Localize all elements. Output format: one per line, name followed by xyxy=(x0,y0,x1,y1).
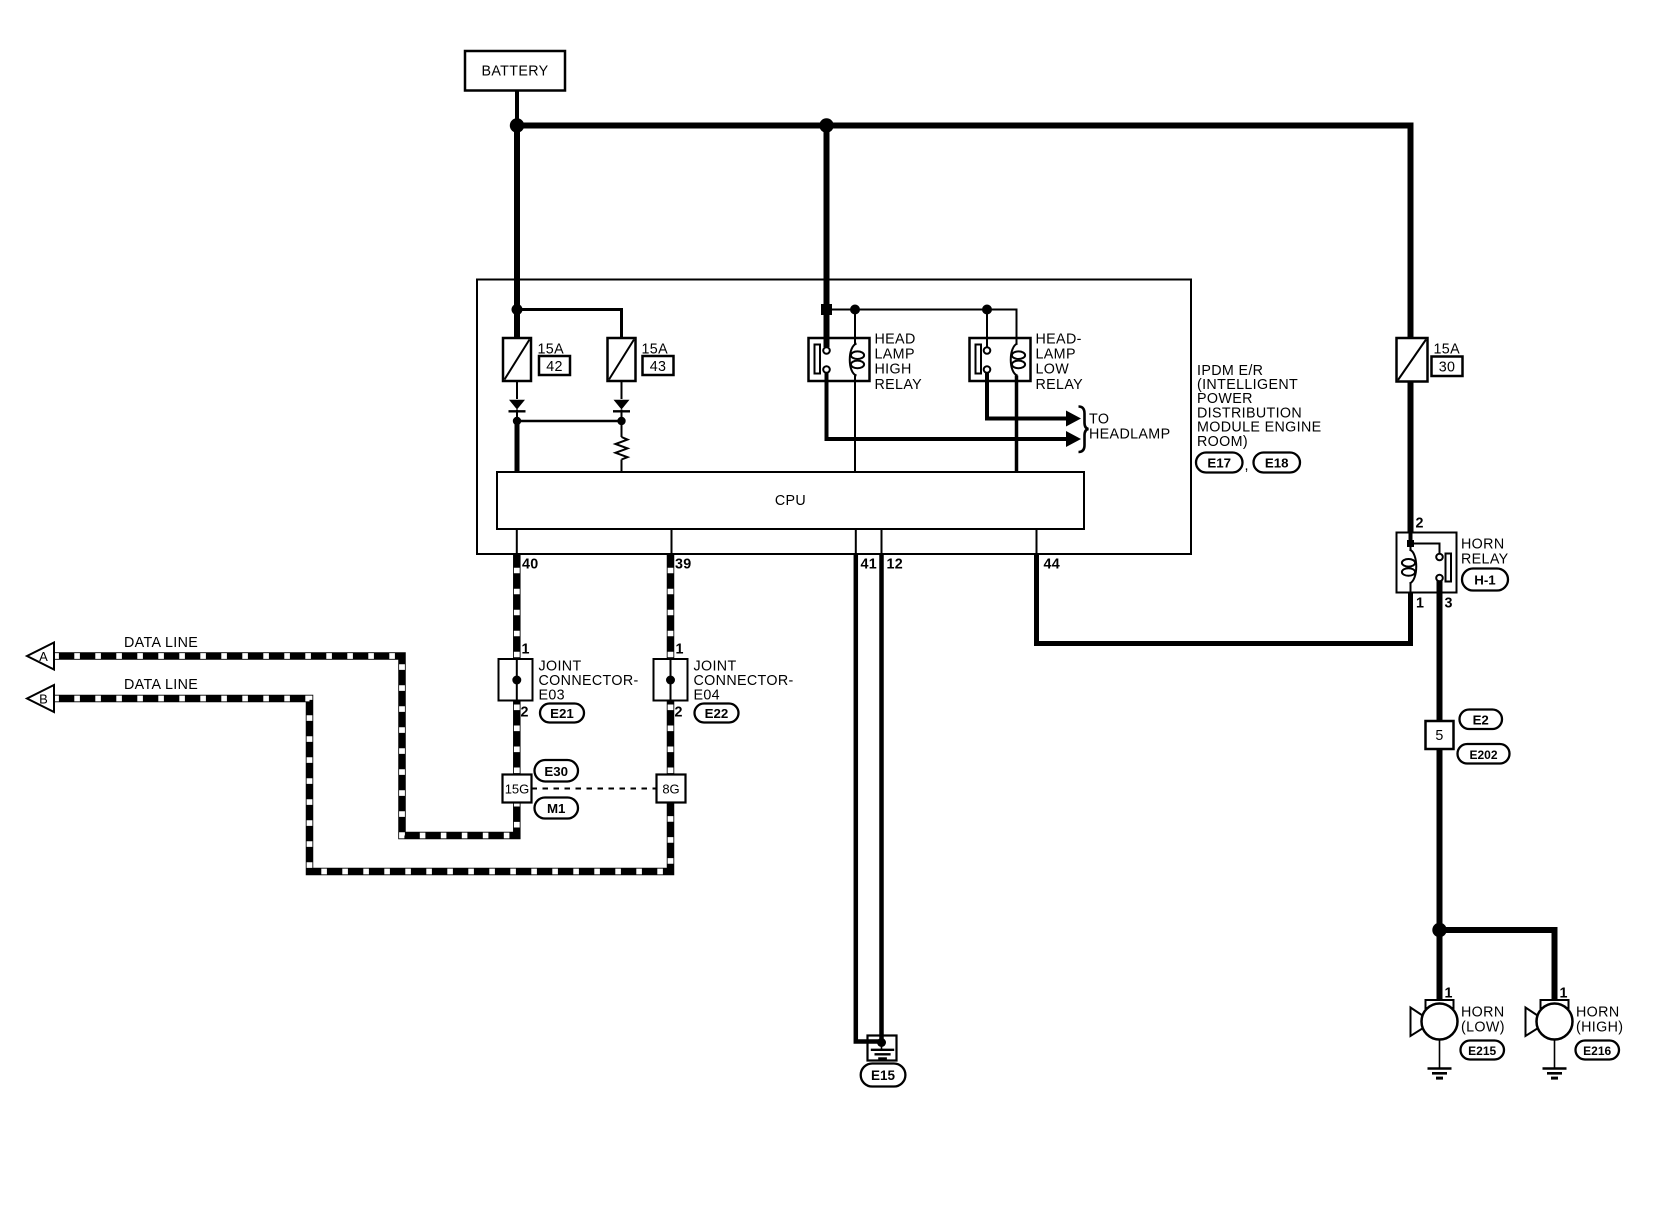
label HEADLAMP LOW RELAY xyxy=(1036,332,1084,393)
wire fuse 42 to diode D1 xyxy=(516,381,518,399)
svg-text:LAMP: LAMP xyxy=(875,347,915,363)
connector oval E17 xyxy=(1196,453,1249,475)
wire battery bus horizontal xyxy=(517,123,1411,129)
svg-text:DATA LINE: DATA LINE xyxy=(124,677,198,693)
relay horn: box xyxy=(1397,533,1457,593)
IPDM E/R enclosure box xyxy=(477,280,1191,555)
connector oval E30 xyxy=(535,760,579,782)
pin 39 stub xyxy=(671,529,673,554)
connector oval E21 xyxy=(540,704,584,723)
svg-text:1: 1 xyxy=(1416,596,1424,612)
svg-text:E22: E22 xyxy=(705,706,729,721)
svg-text:E03: E03 xyxy=(539,688,566,704)
svg-text:(LOW): (LOW) xyxy=(1461,1019,1505,1035)
node square junction inside horn relay xyxy=(1407,540,1414,547)
node fuse-43 branch junction xyxy=(512,304,523,315)
wire fuse 43 to diode D2 xyxy=(621,381,623,399)
svg-text:12: 12 xyxy=(887,557,904,573)
CPU U1 xyxy=(497,472,1084,529)
wire junction to horn low xyxy=(1437,930,1443,1000)
svg-text:E215: E215 xyxy=(1468,1044,1496,1058)
svg-text:1: 1 xyxy=(676,642,684,658)
relay headlamp high: contact bar xyxy=(815,345,821,374)
node square junction at relay feed xyxy=(821,304,832,315)
wire junction to low relay contact pin xyxy=(986,310,988,348)
relay horn: contact bar xyxy=(1446,554,1452,582)
joint connector E03 xyxy=(499,659,533,701)
diode D1 xyxy=(509,400,526,421)
brace to headlamp xyxy=(1079,407,1089,453)
svg-text:E17: E17 xyxy=(1207,456,1231,471)
relay horn: coil xyxy=(1410,544,1412,551)
svg-text:2: 2 xyxy=(521,705,529,721)
connector oval E215 xyxy=(1461,1041,1505,1060)
pin 12 stub xyxy=(881,529,883,554)
svg-text:15G: 15G xyxy=(505,782,530,797)
relay headlamp low: pin circles xyxy=(984,347,991,354)
wire data line A (checkered) xyxy=(52,656,517,836)
svg-text:HORN: HORN xyxy=(1461,1005,1505,1021)
horn high symbol xyxy=(1526,1000,1573,1040)
wire CPU pin 12 to ground xyxy=(879,554,884,1043)
wire horn relay pin 3 down xyxy=(1437,581,1443,930)
diode D2 xyxy=(613,400,630,421)
svg-text:DATA LINE: DATA LINE xyxy=(124,635,198,651)
ground symbol E15 xyxy=(881,1043,883,1050)
wire low relay coil to CPU xyxy=(1015,376,1019,473)
label HORN (HIGH) xyxy=(1576,1005,1623,1036)
svg-text:E15: E15 xyxy=(871,1068,896,1083)
svg-text:CPU: CPU xyxy=(775,493,806,509)
svg-text:43: 43 xyxy=(650,359,667,375)
horn low symbol xyxy=(1411,1000,1458,1040)
svg-text:E2: E2 xyxy=(1473,713,1489,728)
wire junction to contact pin xyxy=(1411,544,1440,554)
svg-text:E30: E30 xyxy=(544,764,568,779)
joint connector E04 xyxy=(654,659,688,701)
svg-text:8G: 8G xyxy=(662,782,679,797)
node diode D1 output junction xyxy=(513,417,521,425)
relay headlamp high: coil xyxy=(850,344,857,376)
node low relay contact junction xyxy=(982,305,992,315)
relay headlamp low: contact bar xyxy=(976,345,982,374)
svg-text:39: 39 xyxy=(675,557,692,573)
connector oval E2 xyxy=(1460,710,1503,730)
svg-text:LAMP: LAMP xyxy=(1036,347,1076,363)
wire joint connector E03 to 15G (checkered) xyxy=(513,701,521,775)
svg-text:30: 30 xyxy=(1439,360,1456,376)
node A arrow xyxy=(27,643,54,670)
svg-text:(HIGH): (HIGH) xyxy=(1576,1019,1623,1035)
svg-text:E04: E04 xyxy=(694,688,721,704)
wire feed down to headlamp high relay xyxy=(824,126,830,348)
svg-text:E18: E18 xyxy=(1265,456,1289,471)
ground horn low xyxy=(1428,1040,1452,1079)
wire joint connector E04 to 8G (checkered) xyxy=(667,701,675,775)
connector 5 / E2 / E202 xyxy=(1426,721,1454,749)
relay horn: entry wire to square node xyxy=(1409,533,1413,544)
wire resistor to CPU xyxy=(621,460,623,473)
wire diode junction link xyxy=(517,420,622,423)
node high relay coil junction xyxy=(850,305,860,315)
svg-text:TO: TO xyxy=(1089,412,1109,428)
relay headlamp high: box xyxy=(809,338,870,381)
relay horn: pin circles xyxy=(1436,554,1443,561)
relay headlamp high: pin circles xyxy=(823,347,830,354)
wire horn branch to horn high xyxy=(1440,930,1555,1000)
svg-text:HORN: HORN xyxy=(1576,1005,1620,1021)
svg-text:41: 41 xyxy=(861,557,878,573)
wire CPU pin 44 to horn relay pin 1 xyxy=(1037,554,1411,644)
label TO HEADLAMP xyxy=(1089,412,1170,443)
label IPDM E/R block xyxy=(1197,363,1322,450)
svg-text:,: , xyxy=(1245,458,1249,474)
svg-text:42: 42 xyxy=(546,359,563,375)
arrow to headlamp upper xyxy=(1066,411,1081,427)
connector oval E216 xyxy=(1576,1041,1620,1060)
node relay feed junction xyxy=(819,118,833,132)
svg-text:HEAD: HEAD xyxy=(875,332,916,348)
wire low relay contact output to headlamp xyxy=(987,373,1067,419)
relay headlamp low: coil xyxy=(1011,344,1018,376)
svg-text:HEADLAMP: HEADLAMP xyxy=(1089,427,1170,443)
svg-text:15A: 15A xyxy=(1434,342,1461,358)
label HORN RELAY xyxy=(1461,537,1509,568)
svg-text:3: 3 xyxy=(1445,596,1453,612)
connector oval E15 xyxy=(861,1064,906,1087)
pin 41 stub xyxy=(855,529,857,554)
label JOINT CONNECTOR-E04 xyxy=(694,659,794,704)
label JOINT CONNECTOR-E03 xyxy=(539,659,639,704)
svg-text:A: A xyxy=(39,649,48,664)
svg-text:B: B xyxy=(39,692,48,707)
fuse F43 15A xyxy=(608,338,674,381)
relay headlamp low: box xyxy=(970,338,1031,381)
resistor R1 xyxy=(616,437,628,460)
svg-text:RELAY: RELAY xyxy=(875,377,923,393)
label HORN (LOW) xyxy=(1461,1005,1505,1036)
connector oval H-1 xyxy=(1462,569,1508,591)
node ground junction xyxy=(877,1038,886,1047)
ground horn high xyxy=(1543,1040,1567,1079)
arrow to headlamp lower xyxy=(1066,431,1081,447)
svg-text:LOW: LOW xyxy=(1036,362,1070,378)
svg-text:RELAY: RELAY xyxy=(1036,377,1084,393)
wire junction to resistor xyxy=(621,421,623,437)
battery B1 xyxy=(465,51,565,91)
wire battery feed down to fuse 42 xyxy=(514,126,520,339)
node B arrow xyxy=(27,685,54,712)
fuse F30 15A xyxy=(1397,338,1463,382)
svg-text:1: 1 xyxy=(522,642,530,658)
connector oval E22 xyxy=(695,704,739,723)
svg-text:44: 44 xyxy=(1044,557,1061,573)
wire battery stub xyxy=(515,91,519,126)
svg-text:BATTERY: BATTERY xyxy=(481,64,548,80)
wire CPU pin 40 to joint connector E03 (checkered) xyxy=(513,554,521,659)
svg-text:E21: E21 xyxy=(550,706,574,721)
grid connector 8G xyxy=(657,775,686,803)
wire relay coil feed line xyxy=(827,310,1017,345)
svg-text:H-1: H-1 xyxy=(1474,573,1496,588)
ground box E15 xyxy=(868,1036,897,1061)
svg-text:ROOM): ROOM) xyxy=(1197,434,1248,450)
svg-text:M1: M1 xyxy=(547,801,566,816)
svg-text:HORN: HORN xyxy=(1461,537,1505,553)
wire diode junction to CPU xyxy=(515,421,520,472)
svg-text:2: 2 xyxy=(675,705,683,721)
node battery junction xyxy=(510,118,524,132)
fuse F42 15A xyxy=(503,338,570,381)
connector oval M1 xyxy=(535,798,579,819)
connector oval E18 xyxy=(1254,453,1301,473)
wire CPU pin 41 to ground xyxy=(856,554,882,1042)
svg-text:2: 2 xyxy=(1416,516,1424,532)
svg-text:5: 5 xyxy=(1435,728,1443,744)
svg-text:E202: E202 xyxy=(1469,748,1497,762)
wire bus right branch down to fuse 30 xyxy=(1408,123,1414,339)
node diode D2 output junction xyxy=(617,417,625,425)
svg-text:RELAY: RELAY xyxy=(1461,551,1509,567)
wire data line B (checkered) xyxy=(52,699,671,872)
wire branch to fuse 43 xyxy=(517,310,622,339)
grid connector 15G xyxy=(503,775,532,803)
pin 40 stub xyxy=(516,529,518,554)
svg-text:40: 40 xyxy=(522,557,539,573)
svg-text:HEAD-: HEAD- xyxy=(1036,332,1082,348)
wire junction to high relay coil xyxy=(854,310,856,345)
svg-text:HIGH: HIGH xyxy=(875,362,912,378)
node horn branch junction xyxy=(1432,923,1446,937)
svg-text:E216: E216 xyxy=(1583,1044,1611,1058)
pin 44 stub xyxy=(1036,529,1038,554)
wire CPU pin 39 to joint connector E04 (checkered) xyxy=(667,554,675,659)
connector oval E202 xyxy=(1458,744,1510,764)
wire fuse 30 to horn relay pin 2 xyxy=(1408,382,1414,533)
wire dashed link 15G to 8G xyxy=(532,788,657,790)
label HEAD LAMP HIGH RELAY xyxy=(875,332,923,393)
wire high relay coil to CPU xyxy=(854,376,856,473)
wire high relay contact output to headlamp xyxy=(827,373,1068,439)
